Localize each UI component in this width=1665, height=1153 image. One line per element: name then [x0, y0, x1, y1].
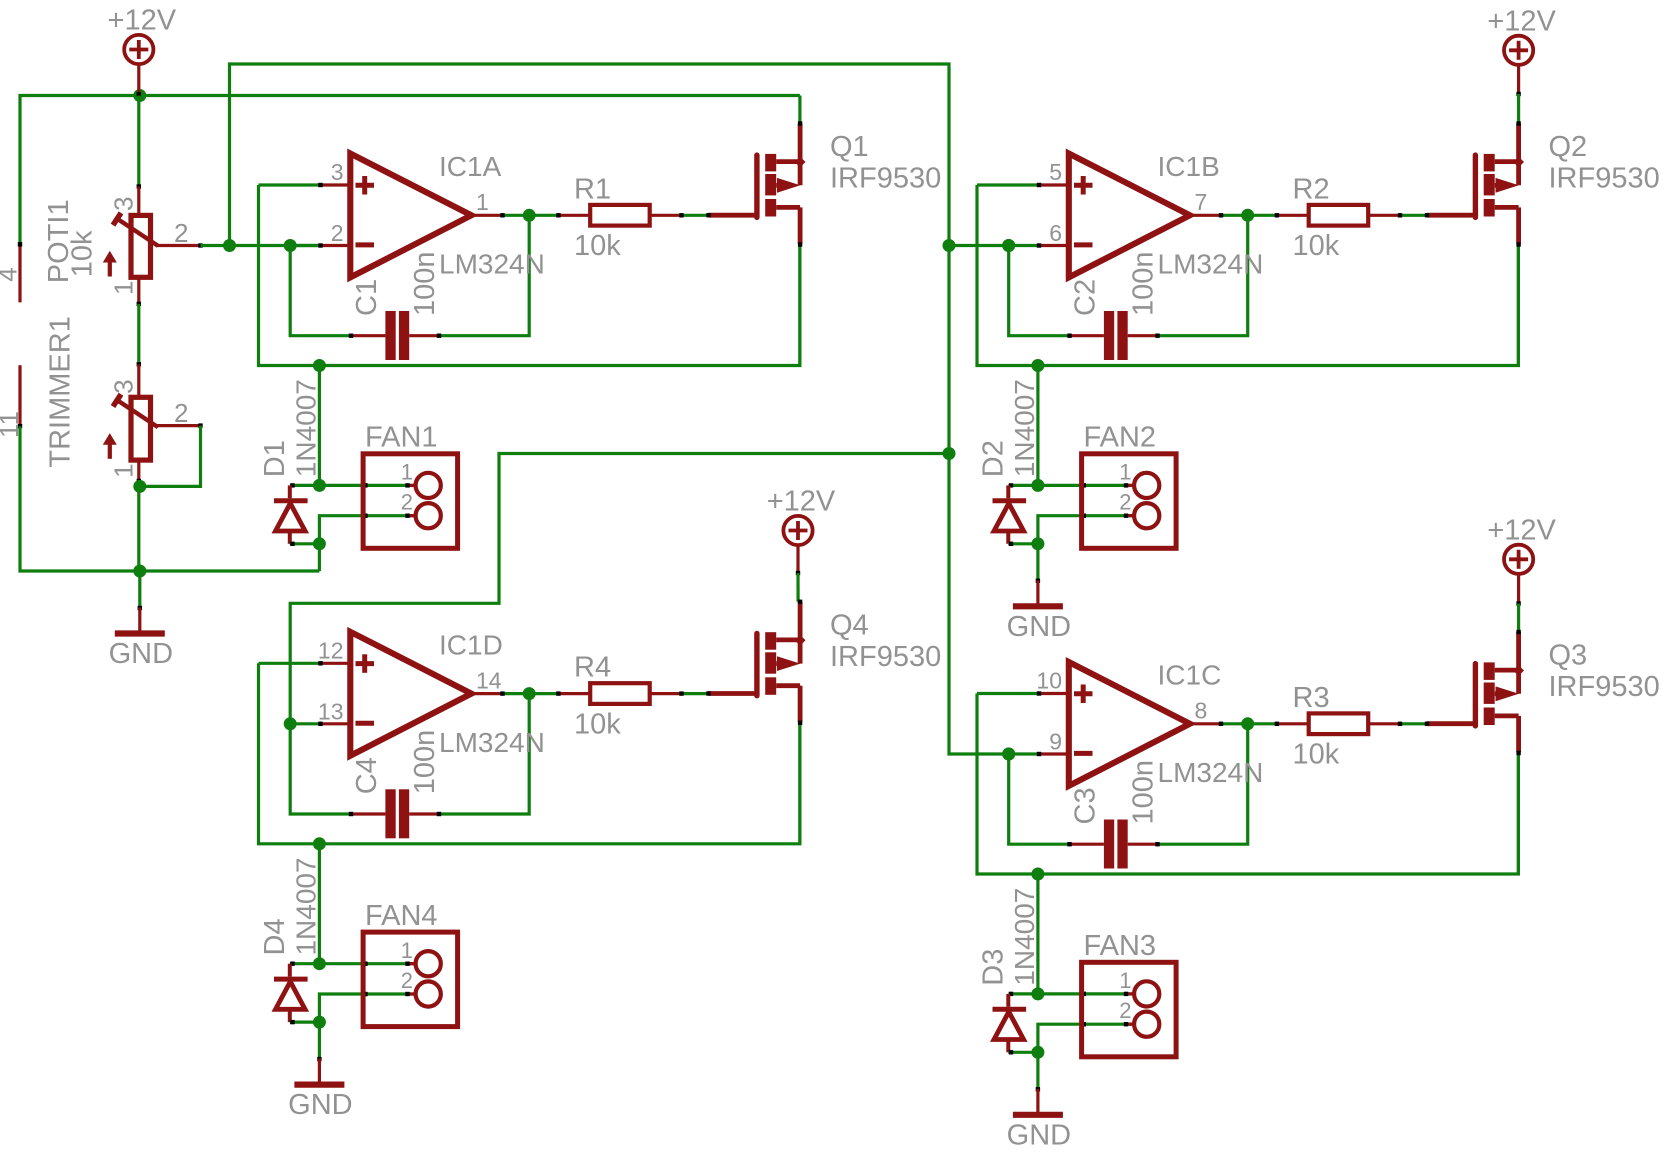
svg-text:7: 7: [1195, 189, 1208, 215]
svg-text:13: 13: [318, 698, 344, 724]
svg-text:11: 11: [0, 411, 24, 438]
svg-text:IRF9530: IRF9530: [1549, 671, 1660, 703]
svg-text:3: 3: [331, 159, 344, 185]
svg-text:D3: D3: [978, 949, 1010, 986]
svg-text:FAN4: FAN4: [365, 900, 438, 932]
svg-text:LM324N: LM324N: [1158, 249, 1264, 280]
svg-text:10k: 10k: [1293, 230, 1340, 262]
svg-text:+12V: +12V: [767, 486, 836, 518]
svg-text:3: 3: [109, 197, 139, 211]
svg-text:100n: 100n: [1128, 251, 1160, 316]
svg-text:12: 12: [318, 637, 344, 663]
svg-text:10k: 10k: [574, 230, 621, 262]
svg-text:1N4007: 1N4007: [291, 857, 322, 955]
svg-text:10k: 10k: [574, 708, 621, 740]
svg-text:IC1D: IC1D: [439, 629, 503, 660]
svg-text:+12V: +12V: [1487, 514, 1556, 546]
svg-text:Q1: Q1: [830, 131, 869, 163]
svg-text:14: 14: [476, 667, 502, 693]
svg-text:1: 1: [1119, 968, 1131, 993]
svg-text:GND: GND: [1007, 611, 1071, 643]
svg-text:2: 2: [1119, 998, 1131, 1023]
svg-text:GND: GND: [1007, 1119, 1071, 1151]
svg-text:IC1B: IC1B: [1158, 151, 1220, 182]
svg-text:1: 1: [109, 463, 139, 477]
svg-text:LM324N: LM324N: [439, 249, 545, 280]
svg-text:IC1A: IC1A: [439, 151, 502, 182]
svg-text:1: 1: [1119, 460, 1131, 485]
svg-text:C3: C3: [1070, 787, 1102, 824]
svg-text:LM324N: LM324N: [439, 727, 545, 758]
svg-text:100n: 100n: [409, 730, 441, 795]
svg-text:2: 2: [174, 398, 188, 428]
svg-text:2: 2: [331, 220, 344, 246]
svg-text:1: 1: [109, 281, 139, 295]
svg-text:2: 2: [401, 968, 413, 993]
svg-text:IRF9530: IRF9530: [1549, 163, 1660, 195]
svg-text:3: 3: [109, 379, 139, 393]
svg-text:5: 5: [1049, 159, 1062, 185]
svg-text:GND: GND: [288, 1089, 352, 1121]
svg-text:100n: 100n: [409, 251, 441, 316]
svg-text:IRF9530: IRF9530: [830, 641, 941, 673]
svg-text:GND: GND: [109, 638, 173, 670]
svg-text:C4: C4: [351, 757, 383, 794]
svg-text:LM324N: LM324N: [1158, 757, 1264, 788]
svg-text:1: 1: [476, 189, 489, 215]
svg-text:10k: 10k: [1293, 739, 1340, 771]
svg-text:10k: 10k: [66, 230, 98, 277]
svg-text:Q4: Q4: [830, 609, 869, 641]
svg-text:Q2: Q2: [1549, 131, 1588, 163]
svg-text:D2: D2: [978, 440, 1010, 477]
svg-text:10: 10: [1036, 668, 1062, 694]
svg-text:+12V: +12V: [108, 5, 177, 37]
svg-text:IRF9530: IRF9530: [830, 163, 941, 195]
svg-text:FAN2: FAN2: [1084, 422, 1157, 454]
svg-text:6: 6: [1049, 220, 1062, 246]
svg-text:4: 4: [0, 267, 23, 281]
svg-text:2: 2: [174, 218, 188, 248]
svg-text:R3: R3: [1293, 682, 1330, 714]
svg-text:Q3: Q3: [1549, 640, 1588, 672]
svg-text:1: 1: [401, 938, 413, 963]
svg-text:8: 8: [1195, 698, 1208, 724]
svg-text:D1: D1: [259, 440, 291, 477]
svg-text:IC1C: IC1C: [1158, 660, 1222, 691]
svg-text:2: 2: [1119, 490, 1131, 515]
svg-text:9: 9: [1049, 729, 1062, 755]
svg-text:R1: R1: [574, 173, 611, 205]
svg-text:FAN3: FAN3: [1084, 930, 1157, 962]
svg-text:D4: D4: [259, 918, 291, 955]
svg-text:TRIMMER1: TRIMMER1: [44, 316, 76, 467]
svg-text:1: 1: [401, 460, 413, 485]
svg-text:100n: 100n: [1128, 760, 1160, 825]
svg-text:C1: C1: [351, 279, 383, 316]
svg-text:R4: R4: [574, 652, 611, 684]
svg-text:FAN1: FAN1: [365, 422, 438, 454]
svg-text:1N4007: 1N4007: [291, 379, 322, 477]
svg-text:+12V: +12V: [1487, 5, 1556, 37]
svg-text:C2: C2: [1070, 279, 1102, 316]
svg-text:1N4007: 1N4007: [1009, 888, 1040, 986]
svg-text:1N4007: 1N4007: [1009, 379, 1040, 477]
svg-text:2: 2: [401, 490, 413, 515]
svg-text:R2: R2: [1293, 173, 1330, 205]
